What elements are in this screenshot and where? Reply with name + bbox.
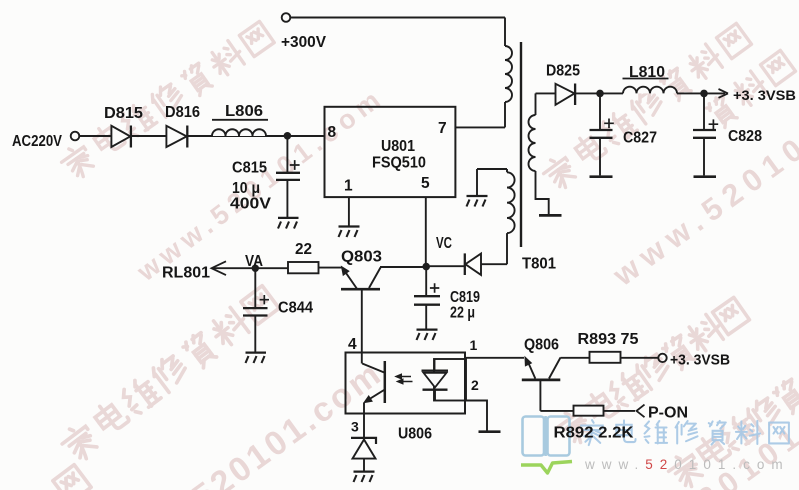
svg-text:5: 5	[421, 175, 430, 192]
svg-text:www.520101.com: www.520101.com	[104, 354, 390, 490]
svg-text:+300V: +300V	[281, 34, 327, 51]
svg-text:D816: D816	[165, 104, 200, 121]
svg-text:C819: C819	[450, 289, 480, 306]
svg-text:400V: 400V	[230, 196, 272, 213]
svg-text:22: 22	[295, 241, 312, 258]
svg-text:+3. 3VSB: +3. 3VSB	[733, 87, 796, 103]
svg-text:www.520101.com: www.520101.com	[584, 457, 790, 472]
svg-text:FSQ510: FSQ510	[372, 155, 426, 172]
svg-text:2: 2	[471, 377, 479, 393]
svg-text:U801: U801	[381, 138, 415, 155]
svg-text:+3. 3VSB: +3. 3VSB	[670, 353, 730, 369]
svg-text:10 μ: 10 μ	[232, 180, 260, 197]
svg-text:P-ON: P-ON	[648, 405, 688, 422]
svg-text:C828: C828	[728, 128, 762, 145]
svg-text:C827: C827	[623, 130, 657, 147]
svg-text:RL801: RL801	[162, 265, 210, 282]
svg-text:7: 7	[438, 120, 447, 137]
svg-text:1: 1	[470, 337, 478, 353]
svg-text:Q806: Q806	[524, 337, 559, 354]
svg-text:D825: D825	[546, 63, 580, 80]
svg-text:8: 8	[328, 124, 337, 141]
svg-text:3: 3	[351, 419, 359, 435]
svg-text:T801: T801	[522, 256, 556, 273]
svg-text:1: 1	[344, 178, 353, 195]
svg-text:U806: U806	[398, 426, 432, 443]
svg-text:VC: VC	[436, 235, 452, 252]
svg-text:R893 75: R893 75	[578, 331, 639, 348]
svg-text:L810: L810	[629, 64, 665, 81]
svg-text:VA: VA	[245, 253, 263, 270]
svg-text:D815: D815	[104, 105, 143, 122]
svg-text:C844: C844	[278, 300, 313, 317]
svg-text:AC220V: AC220V	[12, 133, 63, 150]
svg-text:C815: C815	[232, 160, 267, 177]
svg-text:R892 2.2K: R892 2.2K	[554, 425, 635, 442]
svg-text:L806: L806	[225, 103, 263, 120]
svg-text:22 μ: 22 μ	[450, 305, 475, 322]
svg-text:4: 4	[348, 336, 357, 353]
svg-text:Q803: Q803	[341, 249, 382, 266]
